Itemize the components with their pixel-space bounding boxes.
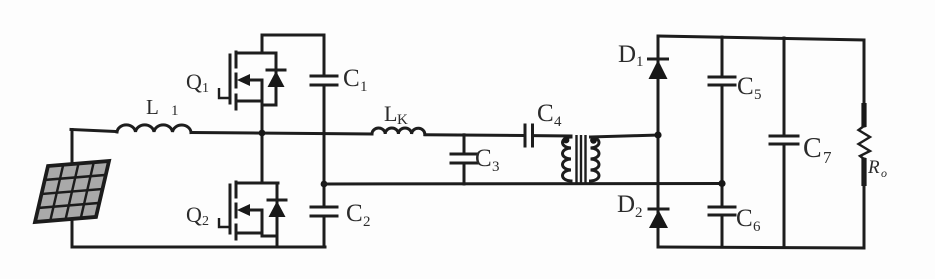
- node: divider midpoint: [321, 181, 328, 188]
- svg-text:1: 1: [636, 54, 644, 70]
- node: switch node junction: [259, 130, 266, 137]
- svg-text:C: C: [343, 65, 360, 92]
- resistor Ro: [859, 40, 871, 248]
- diode D1: [649, 59, 668, 79]
- wire: bottom-right rail: [658, 247, 864, 248]
- wire: lower-middle rail: [324, 182, 722, 186]
- svg-text:6: 6: [753, 219, 761, 235]
- capacitor C4: [525, 125, 533, 146]
- capacitor C3: [451, 135, 477, 184]
- node: rectifier midpoint: [654, 131, 661, 138]
- diode D2: [649, 209, 668, 228]
- svg-text:1: 1: [202, 81, 209, 96]
- capacitor C7 column: [783, 38, 786, 136]
- svg-text:D: D: [618, 41, 636, 68]
- transistor Q2: [219, 182, 286, 247]
- svg-text:7: 7: [823, 148, 832, 167]
- svg-text:C: C: [475, 145, 492, 172]
- svg-text:Q: Q: [186, 69, 202, 94]
- capacitor C1: [311, 75, 337, 78]
- wire: [425, 133, 524, 137]
- wire: switch-node rail segments: [71, 130, 117, 132]
- inductor L1: [117, 125, 191, 133]
- svg-text:L: L: [146, 95, 159, 119]
- node: output doubler midpoint: [718, 180, 725, 187]
- svg-text:C: C: [803, 133, 822, 164]
- diode D1 / D2 column: [657, 36, 660, 247]
- svg-text:5: 5: [754, 87, 762, 103]
- capacitor C5: [709, 76, 735, 79]
- inductor LK: [372, 128, 425, 135]
- solar panel PV array: [35, 161, 109, 222]
- svg-text:o: o: [881, 166, 887, 180]
- capacitor C2: [311, 206, 337, 209]
- wire: top-left rail: [262, 34, 324, 37]
- svg-text:C: C: [346, 200, 363, 227]
- svg-text:D: D: [617, 191, 635, 218]
- svg-text:2: 2: [635, 205, 643, 221]
- wire: bottom-left rail: [72, 246, 325, 249]
- svg-text:3: 3: [492, 159, 500, 175]
- capacitor C5 column: [721, 37, 724, 77]
- wire: top-right rail: [658, 36, 864, 40]
- transistor Q1: [219, 35, 285, 183]
- wire: [534, 134, 572, 137]
- capacitor C7: [770, 135, 798, 138]
- svg-text:2: 2: [363, 214, 371, 230]
- svg-text:1: 1: [360, 79, 368, 95]
- capacitor C1 bus: [323, 35, 326, 76]
- wire: PV left vertical: [71, 130, 74, 248]
- svg-text:K: K: [397, 112, 408, 128]
- svg-text:C: C: [736, 205, 753, 232]
- transformer T1: [563, 135, 600, 184]
- svg-text:4: 4: [554, 114, 562, 130]
- capacitor C6: [709, 206, 735, 209]
- wire: secondary top: [591, 135, 659, 137]
- svg-text:C: C: [737, 73, 754, 100]
- svg-text:1: 1: [171, 103, 179, 119]
- wire: [191, 133, 372, 135]
- svg-text:C: C: [537, 100, 554, 127]
- svg-text:L: L: [384, 101, 397, 126]
- svg-text:2: 2: [202, 214, 209, 229]
- svg-text:Q: Q: [186, 202, 202, 227]
- svg-text:R: R: [867, 157, 880, 178]
